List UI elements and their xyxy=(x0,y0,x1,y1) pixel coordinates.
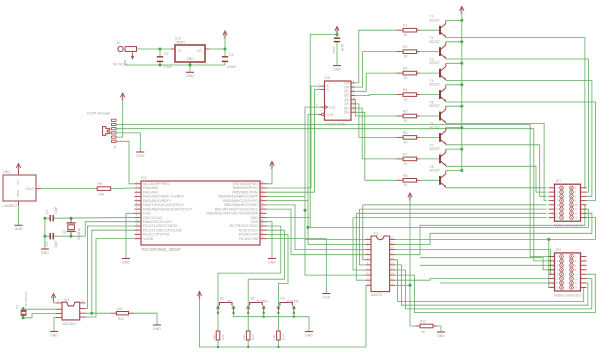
svg-text:R14: R14 xyxy=(281,334,285,340)
wire T8 emitter straight to matrix connector 1 left row1 xyxy=(446,187,547,189)
svg-text:IC1: IC1 xyxy=(374,232,379,236)
svg-text:GND: GND xyxy=(437,334,445,338)
svg-text:BC337: BC337 xyxy=(430,61,440,65)
junction S1 pins xyxy=(217,306,219,308)
wire C4 to crystal to PIC OSC2 xyxy=(54,222,135,237)
svg-text:R13: R13 xyxy=(251,334,255,340)
svg-text:LM35CZ: LM35CZ xyxy=(3,203,19,208)
wire to matrix connector 1 row8 xyxy=(353,217,547,219)
svg-text:R8: R8 xyxy=(403,174,407,178)
svg-text:J2: J2 xyxy=(116,41,120,45)
junction collector T5 xyxy=(460,105,463,108)
supply +5V for buttons xyxy=(197,292,366,348)
connector JP1 Matrix connector 1 xyxy=(549,179,587,227)
wire driver pin17 under JP1 to right row5 xyxy=(395,205,586,255)
wire R7 to T7 base xyxy=(420,158,439,160)
wire crystal ground leg xyxy=(44,218,46,248)
wire PIC to driver pin4 xyxy=(267,209,366,255)
svg-text:BC337: BC337 xyxy=(430,18,440,22)
ground for R10 xyxy=(437,331,445,333)
wire RTC SCL to PIC VUSB xyxy=(86,239,135,317)
wire R13 to +5V rail xyxy=(247,341,249,348)
svg-text:UB1: UB1 xyxy=(3,170,10,174)
wire buttons to ground rail xyxy=(234,313,310,331)
junction collector T8 xyxy=(460,169,463,172)
wire driver pin19 under JP1 to right row7 xyxy=(395,213,592,244)
ground for crystal caps xyxy=(41,248,49,250)
transistor T4 BC337 xyxy=(430,79,446,102)
svg-text:1K: 1K xyxy=(404,119,409,123)
svg-text:IC1P: IC1P xyxy=(340,44,344,52)
svg-text:1K: 1K xyxy=(404,33,409,37)
crystal Q2 32.768 kHz xyxy=(15,291,28,318)
svg-text:BC337: BC337 xyxy=(430,168,440,172)
resistor R6 1K xyxy=(397,131,420,144)
wire driver pin20 under JP1 to right row8 xyxy=(395,218,595,240)
svg-text:JP1: JP1 xyxy=(556,179,562,183)
svg-text:1K: 1K xyxy=(404,140,409,144)
resistor R12 10K xyxy=(212,331,225,341)
wire PIC RB6 to IC1 A xyxy=(267,86,321,188)
connector JP2 Matrix connector 2 xyxy=(549,248,587,298)
svg-text:0.1uF: 0.1uF xyxy=(164,65,173,69)
svg-text:IC4: IC4 xyxy=(64,298,69,302)
svg-text:+5V: +5V xyxy=(16,165,20,172)
svg-text:10K: 10K xyxy=(212,334,216,340)
wire driver pin16 to matrix connector 2 right xyxy=(395,260,586,302)
supply +5V at PIC RB7 xyxy=(267,162,275,184)
ground for buttons xyxy=(305,331,313,333)
svg-text:1K: 1K xyxy=(404,98,409,102)
junction C3 top xyxy=(224,48,227,51)
supply +5V for LM35 xyxy=(16,164,21,172)
junction collector T6 xyxy=(460,126,463,129)
svg-text:GND: GND xyxy=(136,154,144,158)
svg-text:100nF: 100nF xyxy=(227,65,237,69)
svg-text:BC337: BC337 xyxy=(430,83,440,87)
svg-text:Matrix connector 1: Matrix connector 1 xyxy=(554,224,583,228)
wire driver pin14 to matrix connector 2 right xyxy=(395,270,592,309)
wire ICSP pin 3 PGC to matrix connector 2 xyxy=(116,129,555,261)
wire R12 to +5V rail xyxy=(217,341,219,348)
wire ICSP pin 6 to PIC MCLR xyxy=(116,141,135,184)
crystal Q1 20MHz xyxy=(62,218,81,240)
svg-text:BC337: BC337 xyxy=(430,40,440,44)
svg-text:R11: R11 xyxy=(118,317,124,321)
wire driver pin13 to matrix connector 2 right xyxy=(395,274,595,312)
svg-text:R10: R10 xyxy=(420,320,426,324)
svg-text:GND: GND xyxy=(15,227,23,231)
wire R8 to T8 base xyxy=(420,179,439,181)
shift register IC5 74HCT164N xyxy=(315,76,356,126)
wire T3 collector to +5V rail xyxy=(446,62,462,64)
svg-text:7805T: 7805T xyxy=(175,40,186,44)
wire T5 emitter to matrix connector 1 left row4 xyxy=(446,123,547,200)
junction PIC bus xyxy=(304,209,307,212)
svg-text:CLR: CLR xyxy=(327,113,334,117)
ICSP header J1 xyxy=(87,111,117,150)
supply +5V for RTC xyxy=(51,294,56,303)
wire R10 to ground xyxy=(437,326,441,332)
wire driver pin11 to R10 line xyxy=(395,284,410,286)
wire VDD bus under JP1 to right row6 xyxy=(310,209,588,227)
wire ICSP pin 4 to ground xyxy=(116,133,140,152)
svg-text:1K: 1K xyxy=(404,183,409,187)
wire R4 to T4 base xyxy=(420,94,439,96)
wire T6 collector to +5V rail xyxy=(446,127,462,129)
wire T3 emitter to matrix connector 1 right row3 xyxy=(446,81,592,197)
ground for LM35 xyxy=(15,206,23,232)
wire IC1 QF to R6 xyxy=(355,104,397,137)
wire IC1 QB to R2 xyxy=(355,52,397,88)
svg-text:QH: QH xyxy=(344,111,350,115)
transistor T6 BC337 xyxy=(430,122,446,145)
wire R2 to T2 base xyxy=(420,51,439,53)
svg-text:A6276: A6276 xyxy=(371,293,382,297)
svg-text:10K: 10K xyxy=(99,193,106,197)
transistor T1 BC337 xyxy=(430,15,446,38)
svg-text:S2: S2 xyxy=(250,296,254,300)
svg-text:R2: R2 xyxy=(403,45,407,49)
svg-text:GND: GND xyxy=(322,295,330,299)
capacitor C3 100nF xyxy=(222,49,237,69)
wire IC1 QE to R5 xyxy=(355,100,397,116)
svg-text:GND: GND xyxy=(268,260,276,264)
wire IC3 VO to C3 xyxy=(209,48,225,50)
junction C2 bottom xyxy=(159,64,162,67)
wire driver pin12 to matrix connector 2 left xyxy=(395,279,554,281)
svg-text:1K: 1K xyxy=(404,76,409,80)
transistor T8 BC337 xyxy=(430,165,446,188)
junction C1 left xyxy=(43,217,46,220)
resistor R14 10K xyxy=(272,331,285,341)
junction IC3 ground xyxy=(189,64,192,67)
junction C2 top xyxy=(159,48,162,51)
wire T7 emitter to matrix connector 1 left row2 xyxy=(446,166,547,192)
wire T6 emitter to matrix connector 1 left row3 xyxy=(446,145,547,197)
svg-text:1K: 1K xyxy=(404,55,409,59)
wire driver pin18 to matrix connector 2 row5 xyxy=(395,250,554,275)
resistor R1 1K xyxy=(397,24,420,37)
resistor R11 10K xyxy=(111,307,134,321)
svg-text:GND: GND xyxy=(305,333,313,337)
svg-text:GND: GND xyxy=(122,260,130,264)
wire RTC SDA to pullup R11 xyxy=(86,312,112,314)
supply +5V symbol at regulator output xyxy=(222,31,227,49)
wire C1 to crystal to PIC OSC1 xyxy=(54,217,135,220)
wire RTC pin4 to ground xyxy=(54,318,56,332)
svg-text:BC337: BC337 xyxy=(430,104,440,108)
svg-text:+5V: +5V xyxy=(269,163,273,170)
svg-text:+5V: +5V xyxy=(459,8,463,15)
power bypass IC1P with +5V and ground xyxy=(332,27,344,72)
junction collector T4 xyxy=(460,83,463,86)
svg-text:GND: GND xyxy=(333,67,341,71)
svg-text:GND: GND xyxy=(50,333,58,337)
wire PIC RC4 to ground xyxy=(267,239,327,293)
wire driver ground rail xyxy=(365,285,367,347)
svg-text:+5V: +5V xyxy=(407,195,411,202)
svg-text:GND: GND xyxy=(186,57,194,61)
wire to matrix connector 2 row 7 xyxy=(440,282,555,284)
svg-text:GND: GND xyxy=(16,190,20,198)
wire R14 to +5V rail xyxy=(277,341,279,348)
svg-text:S3: S3 xyxy=(280,296,284,300)
resistor R4 1K xyxy=(397,88,420,102)
junction SDA xyxy=(90,312,93,315)
wire serial data branch to driver pin1 xyxy=(305,238,366,240)
svg-text:BC337: BC337 xyxy=(430,147,440,151)
wire Q2 to RTC X2 xyxy=(23,313,56,317)
svg-text:R5: R5 xyxy=(403,110,407,114)
wire to matrix connector 2 row 8 xyxy=(549,239,555,287)
wire S2 to pullup R13 xyxy=(247,313,249,331)
svg-text:GND: GND xyxy=(41,251,49,255)
svg-text:S1: S1 xyxy=(220,296,224,300)
svg-text:R4: R4 xyxy=(403,88,407,92)
ground at PIC RC4 xyxy=(322,293,330,295)
svg-text:VI: VI xyxy=(178,49,181,53)
transistor T7 BC337 xyxy=(430,143,446,166)
junction PIC bus 2 xyxy=(307,226,310,229)
wire R9 to PIC RA0 xyxy=(111,187,135,190)
wire RTC SQW to PIC RC0 xyxy=(86,226,135,309)
svg-text:Q2: Q2 xyxy=(15,305,19,309)
junction collector T2 xyxy=(460,40,463,43)
push button S2 DOWN xyxy=(246,296,268,313)
svg-text:DOWN: DOWN xyxy=(257,299,269,303)
resistor R13 10K xyxy=(242,331,255,341)
svg-text:C2: C2 xyxy=(164,52,169,56)
ground for R11 xyxy=(153,324,161,326)
svg-text:15pF: 15pF xyxy=(54,206,58,214)
wire T2 emitter to matrix connector 1 right row2 xyxy=(446,59,589,192)
svg-text:Q1: Q1 xyxy=(62,229,66,234)
junction S3 pins xyxy=(277,306,279,308)
svg-text:+5V: +5V xyxy=(120,95,124,102)
push button S3 ENTER xyxy=(277,296,300,313)
wire Q2 to RTC X1 xyxy=(23,308,56,310)
svg-text:DS1307: DS1307 xyxy=(63,321,77,326)
junction Q2 bottom xyxy=(22,316,25,319)
supply +5V near driver xyxy=(407,193,415,326)
resistor R7 1K xyxy=(397,152,420,165)
wire S1 to pullup R12 xyxy=(217,313,219,331)
wire IC1 QA to R1 xyxy=(355,30,397,83)
svg-text:Matrix connector 2: Matrix connector 2 xyxy=(554,293,583,297)
junction C4 left xyxy=(43,235,46,238)
wire driver pin15 to matrix connector 2 right xyxy=(395,265,588,305)
svg-text:10K: 10K xyxy=(242,334,246,340)
wire IC1 QH to R8 xyxy=(355,112,397,180)
svg-text:10K: 10K xyxy=(117,307,124,311)
wire +5V to ICSP pin 5 xyxy=(116,100,123,137)
wire T7 collector to +5V rail xyxy=(446,148,462,150)
svg-text:1K: 1K xyxy=(404,162,409,166)
svg-text:JP2: JP2 xyxy=(556,248,562,252)
wire PIC to button S3 xyxy=(267,234,289,307)
ground for ICSP xyxy=(136,151,144,153)
svg-text:R9: R9 xyxy=(98,182,102,186)
svg-text:RC4/D-/VM: RC4/D-/VM xyxy=(239,237,258,241)
wire RTC SDA to PIC RC1 xyxy=(92,230,135,313)
wire R3 to T3 base xyxy=(420,72,439,74)
svg-text:C4: C4 xyxy=(45,242,49,246)
resistor R2 1K xyxy=(397,45,420,58)
svg-text:IC2: IC2 xyxy=(141,176,147,180)
voltage regulator IC3 7805T xyxy=(171,36,209,65)
svg-text:+5V: +5V xyxy=(222,33,226,40)
svg-text:C1: C1 xyxy=(45,210,49,214)
push button S1 UP xyxy=(216,296,235,313)
resistor R3 1K xyxy=(397,67,420,80)
svg-text:9V DC in: 9V DC in xyxy=(113,63,128,67)
svg-text:R7: R7 xyxy=(403,152,407,156)
svg-text:R1: R1 xyxy=(403,24,407,28)
svg-text:10K: 10K xyxy=(272,334,276,340)
wire driver pin6 to matrix connector 1 row6 xyxy=(360,208,547,210)
svg-text:74HCT164N: 74HCT164N xyxy=(325,122,346,126)
wire IC1 QC to R3 xyxy=(355,73,397,91)
capacitor C4 15pF xyxy=(45,233,58,248)
resistor R5 1K xyxy=(397,110,420,123)
supply +5V for ICSP xyxy=(120,93,125,101)
wire R11 to ground xyxy=(134,313,157,324)
transistor T3 BC337 xyxy=(430,58,446,81)
wire ICSP pin 2 PGD to matrix connector 2 xyxy=(116,125,555,257)
wire serial clock branch to driver pin2 xyxy=(308,244,366,246)
svg-text:+5V: +5V xyxy=(197,293,201,300)
wire PIC to button S2 xyxy=(248,230,284,307)
microcontroller IC2 PIC18F2550 xyxy=(135,176,267,252)
wire R6 to T6 base xyxy=(420,136,439,138)
wire T1 collector to +5V rail xyxy=(446,19,462,21)
svg-text:C3: C3 xyxy=(229,53,234,57)
ground below PIC VSS left xyxy=(122,213,135,264)
transistor T5 BC337 xyxy=(430,101,446,124)
wire J2 to IC3 VI xyxy=(137,48,172,50)
transistor T2 BC337 xyxy=(430,36,446,59)
svg-text:20 MHz: 20 MHz xyxy=(77,228,81,240)
svg-text:IC5: IC5 xyxy=(325,76,330,80)
RTC IC4 DS1307 xyxy=(56,298,86,326)
wire PIC RB4 to IC1 CLK and driver pin8 xyxy=(267,107,321,196)
svg-text:VOUT: VOUT xyxy=(25,187,34,191)
svg-text:32.768 kHz: 32.768 kHz xyxy=(24,291,28,307)
svg-text:GND: GND xyxy=(153,327,161,331)
capacitor C2 0.1uF xyxy=(157,49,173,69)
resistor R9 10K xyxy=(97,182,111,197)
svg-text:GND: GND xyxy=(186,74,194,78)
svg-text:+VS: +VS xyxy=(16,179,20,185)
svg-text:BC337: BC337 xyxy=(430,126,440,130)
junction crystal top xyxy=(70,217,73,220)
wire driver pin9 to matrix connector 1 row7 xyxy=(356,212,546,214)
wire PIC to button S1 xyxy=(218,226,281,307)
ground for RTC xyxy=(50,331,58,333)
wire IC1 QD to R4 xyxy=(355,95,397,96)
resistor R8 1K xyxy=(397,174,420,187)
wire R5 to T5 base xyxy=(420,115,439,117)
svg-text:R3: R3 xyxy=(403,67,407,71)
junction S2 pins xyxy=(247,306,249,308)
wire T4 collector to +5V rail xyxy=(446,84,462,86)
svg-text:CLK: CLK xyxy=(329,105,336,109)
wire to matrix connector 2 row 3 xyxy=(420,264,555,266)
junction crystal bottom xyxy=(70,235,73,238)
wire T5 collector to +5V rail xyxy=(446,105,462,107)
svg-text:100n: 100n xyxy=(332,47,336,54)
capacitor C1 15pF xyxy=(45,206,58,221)
svg-text:R12: R12 xyxy=(221,334,225,340)
svg-text:VO: VO xyxy=(197,49,202,53)
svg-text:+5V: +5V xyxy=(51,295,55,302)
wire T4 emitter to matrix connector 1 right row4 xyxy=(446,102,596,201)
svg-text:J1: J1 xyxy=(113,146,117,150)
junction row8 branch xyxy=(547,238,550,241)
wire PIC RB3 to IC1 CLR and driver bus xyxy=(267,115,319,201)
junction collector T1 xyxy=(460,19,463,22)
wire PIC to driver pin3 xyxy=(267,205,366,250)
wire LM35 VOUT to R9 xyxy=(41,188,97,190)
junction Q2 top xyxy=(22,307,25,310)
wire R1 to T1 base xyxy=(420,29,439,31)
junction collector T3 xyxy=(460,62,463,65)
wire T2 collector to +5V rail xyxy=(446,41,462,43)
temperature sensor UB1 LM35CZ xyxy=(3,170,42,208)
ground below IC3 xyxy=(189,65,191,72)
connector J2 9V DC in xyxy=(113,41,137,67)
svg-text:ICSP Header: ICSP Header xyxy=(87,111,111,116)
ground below PIC VSS right xyxy=(267,222,277,265)
LED driver IC1 A6276 xyxy=(366,232,396,297)
resistor R10 1K xyxy=(416,320,438,334)
supply +5V rail of transistors xyxy=(459,7,464,172)
wire +5V to PIC VDD xyxy=(310,35,337,228)
wire driver pin5 to matrix connector 1 row5 xyxy=(363,204,547,206)
wire S3 to pullup R14 xyxy=(277,313,279,331)
svg-text:1K: 1K xyxy=(421,330,426,334)
svg-text:RA5/AN4/SS/HLVDIN/C2OUT: RA5/AN4/SS/HLVDIN/C2OUT xyxy=(143,207,193,211)
wire PIC RB5 to IC1 B xyxy=(267,90,321,193)
svg-text:15pF: 15pF xyxy=(54,240,58,248)
svg-text:PIC18F2550_28DIP: PIC18F2550_28DIP xyxy=(142,247,181,252)
svg-text:VUSB: VUSB xyxy=(143,237,154,241)
svg-text:R6: R6 xyxy=(403,131,407,135)
junction collector T7 xyxy=(460,148,463,151)
svg-text:ENTER: ENTER xyxy=(287,299,299,303)
wire IC1 QG to R7 xyxy=(355,108,397,159)
svg-text:UP: UP xyxy=(227,299,233,303)
wire T1 emitter to matrix connector 1 right row1 xyxy=(446,38,587,188)
wire T8 collector to +5V rail xyxy=(446,170,462,172)
wire ground rail of supply xyxy=(125,60,225,65)
wire to matrix connector 2 row 4 xyxy=(420,258,555,270)
